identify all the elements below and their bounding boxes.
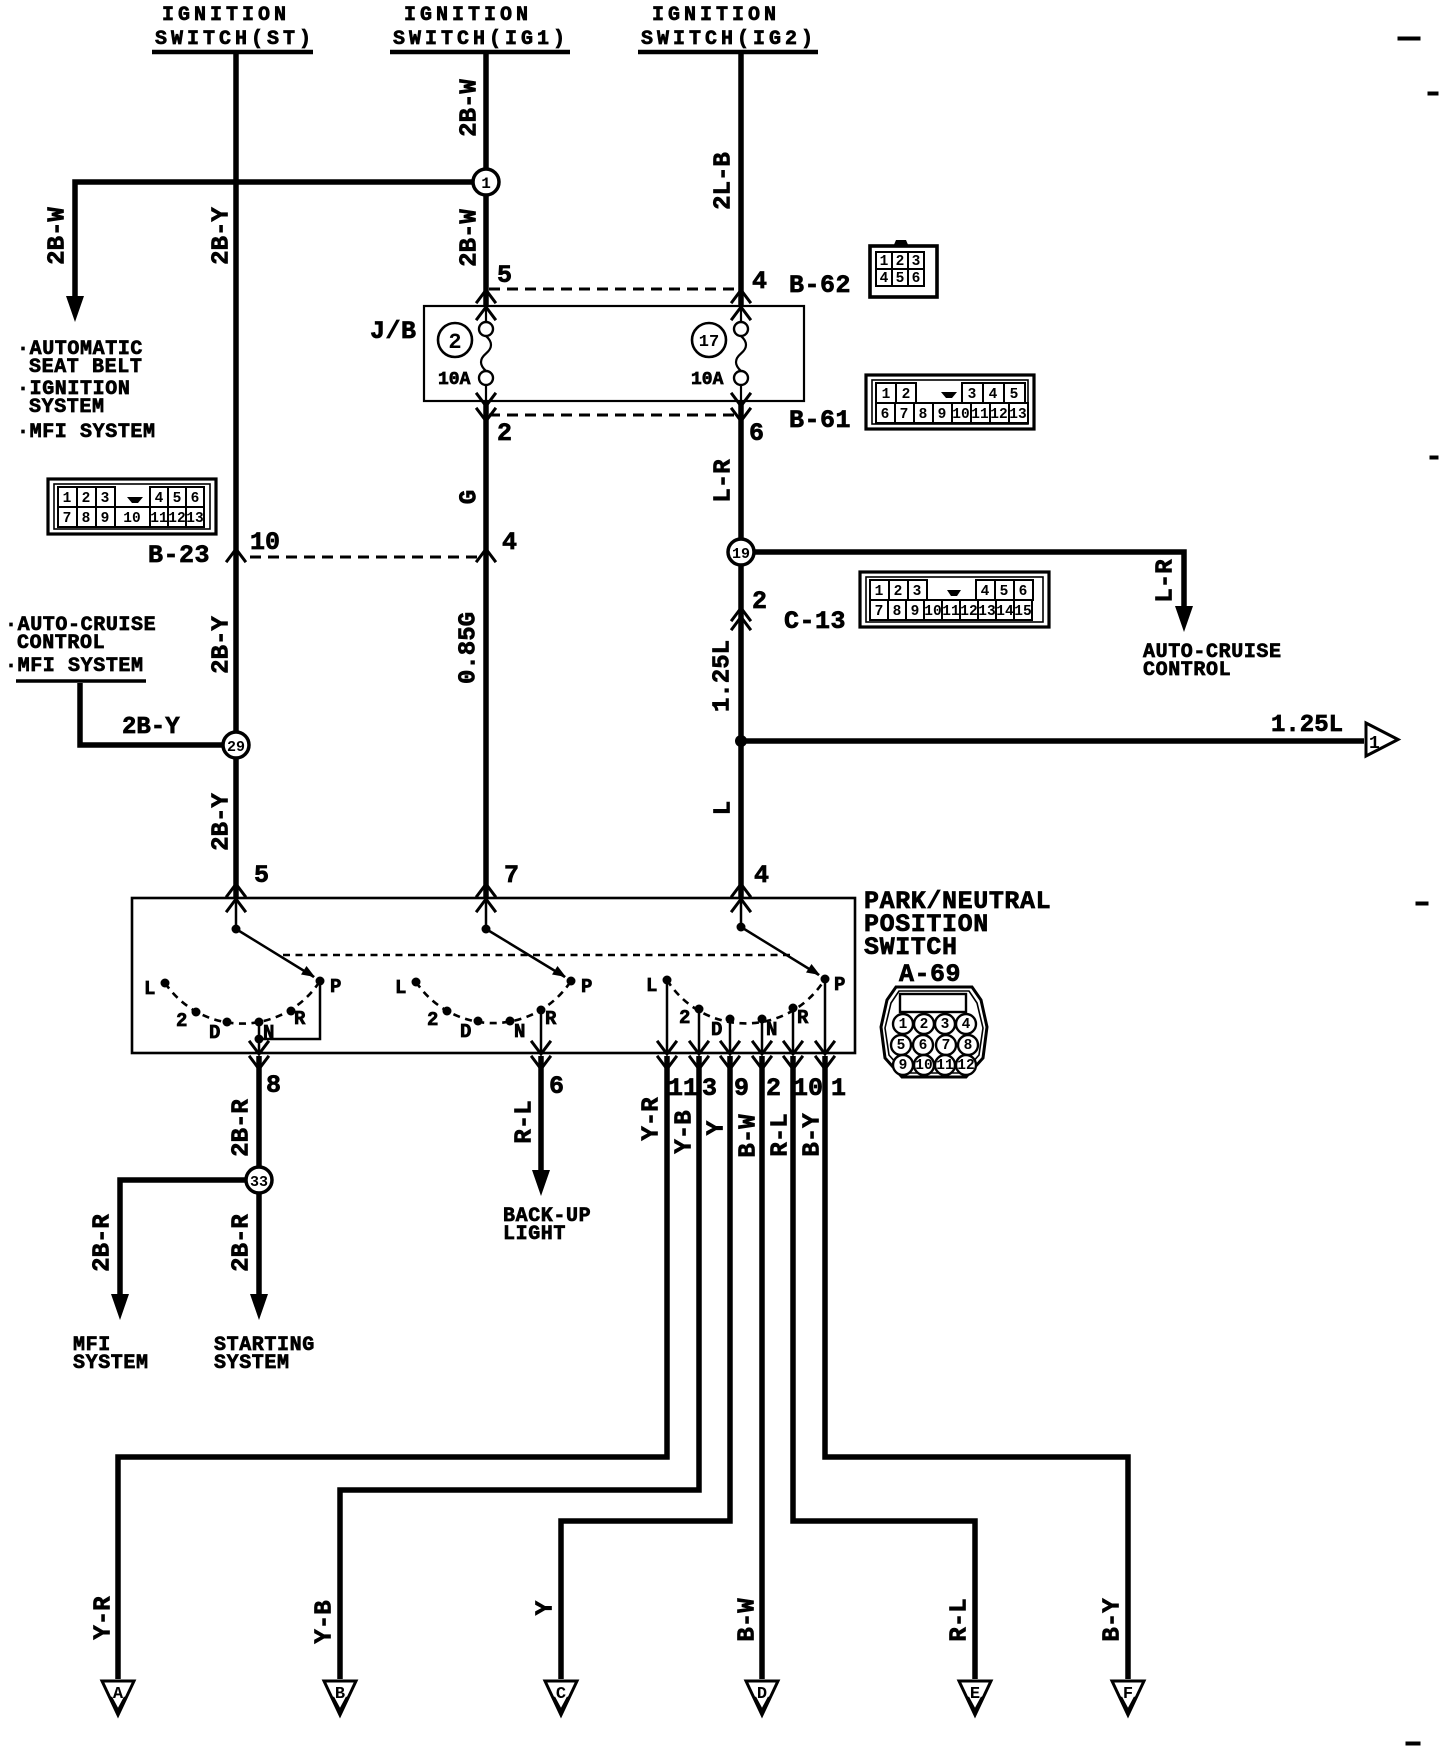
svg-text:2B-W: 2B-W [456, 79, 483, 137]
svg-text:6: 6 [912, 271, 921, 287]
dashed connector line B-23 pin10 to pin4 [250, 556, 482, 559]
svg-text:13: 13 [1009, 407, 1026, 423]
svg-text:9: 9 [938, 407, 947, 423]
svg-text:SEAT BELT: SEAT BELT [29, 356, 142, 379]
switch 3 IG2 pole [737, 898, 830, 984]
svg-text:Y: Y [703, 1120, 730, 1135]
wire Y pin9 to terminal C [561, 1056, 730, 1679]
svg-text:7: 7 [63, 511, 72, 527]
svg-text:2: 2 [497, 419, 512, 448]
wire pin6 output R-L to back-up light [538, 1056, 544, 1172]
svg-text:2: 2 [896, 254, 905, 270]
chevron IG2 at B-62 [732, 290, 750, 302]
node splice 33 [246, 1167, 272, 1193]
svg-text:13: 13 [186, 511, 203, 527]
terminal arrow B [324, 1681, 356, 1715]
label PARK/NEUTRAL POSITION SWITCH [864, 887, 1051, 962]
svg-text:10: 10 [123, 511, 140, 527]
chevron IG2 at B-61 [732, 409, 750, 421]
svg-text:4: 4 [981, 584, 990, 600]
svg-text:P: P [330, 976, 341, 998]
wire 1.25L branch right [741, 738, 1364, 744]
wire branch to auto-cruise control right [754, 552, 1184, 608]
chevron IG1 at J/B bottom [477, 394, 495, 406]
svg-text:10: 10 [924, 604, 941, 620]
svg-text:SYSTEM: SYSTEM [73, 1352, 149, 1375]
svg-text:2: 2 [902, 387, 911, 403]
svg-text:10: 10 [793, 1074, 823, 1103]
destination text BACK-UP LIGHT [503, 1205, 591, 1246]
svg-text:11: 11 [942, 604, 960, 620]
svg-text:7: 7 [942, 1038, 951, 1054]
svg-text:B-W: B-W [735, 1114, 762, 1158]
svg-text:11: 11 [150, 511, 168, 527]
svg-text:L-R: L-R [1152, 559, 1179, 603]
svg-text:2B-Y: 2B-Y [122, 714, 180, 741]
switch 2 IG1 pole [482, 898, 576, 986]
svg-text:IGNITION: IGNITION [162, 4, 290, 27]
svg-text:4: 4 [752, 267, 767, 296]
svg-text:Y-R: Y-R [638, 1097, 665, 1141]
svg-text:1: 1 [882, 387, 891, 403]
svg-text:SWITCH: SWITCH [864, 933, 958, 962]
svg-text:L-R: L-R [710, 459, 737, 503]
terminal arrow D [746, 1681, 778, 1715]
svg-text:LIGHT: LIGHT [503, 1223, 566, 1246]
svg-text:7: 7 [504, 861, 519, 890]
svg-text:R-L: R-L [511, 1100, 538, 1143]
scan speck top right [1398, 37, 1438, 1745]
svg-text:R: R [294, 1008, 306, 1030]
svg-text:CONTROL: CONTROL [1143, 659, 1231, 682]
svg-text:12: 12 [957, 1058, 974, 1074]
svg-text:19: 19 [732, 546, 750, 563]
svg-text:IGNITION: IGNITION [404, 4, 532, 27]
svg-text:2: 2 [82, 491, 91, 507]
svg-text:D: D [460, 1021, 471, 1043]
chevron IG1 at J/B top [477, 307, 495, 319]
svg-text:1: 1 [481, 175, 491, 193]
svg-text:6: 6 [881, 407, 890, 423]
svg-text:P: P [834, 974, 845, 996]
svg-text:2B-Y: 2B-Y [208, 616, 235, 674]
underline under MFI SYSTEM [16, 679, 146, 683]
svg-text:9: 9 [101, 511, 110, 527]
svg-text:3: 3 [101, 491, 110, 507]
svg-text:SYSTEM: SYSTEM [214, 1352, 290, 1375]
pin labels below PNP box [266, 1071, 846, 1103]
svg-text:CONTROL: CONTROL [17, 632, 105, 655]
svg-text:10: 10 [915, 1058, 932, 1074]
svg-text:9: 9 [899, 1058, 908, 1074]
svg-text:9: 9 [734, 1074, 749, 1103]
svg-text:2B-R: 2B-R [89, 1214, 116, 1272]
svg-text:2: 2 [920, 1017, 929, 1033]
svg-text:L: L [710, 801, 737, 815]
svg-text:L: L [395, 977, 406, 999]
svg-text:SWITCH(IG2): SWITCH(IG2) [641, 28, 817, 51]
svg-text:4: 4 [989, 387, 998, 403]
arrow to auto-cruise control [1175, 606, 1193, 632]
destination text AUTO-CRUISE CONTROL right [1143, 641, 1282, 682]
svg-text:9: 9 [911, 604, 920, 620]
arrow to automatic seat belt [66, 296, 84, 322]
svg-text:2B-R: 2B-R [228, 1214, 255, 1272]
connector C-13 graphic [860, 572, 1049, 627]
node splice 1 [473, 169, 499, 195]
svg-text:2: 2 [176, 1010, 187, 1032]
chevron double at C-13 [732, 608, 750, 620]
svg-text:2: 2 [679, 1007, 690, 1029]
destination text STARTING SYSTEM [214, 1334, 315, 1375]
svg-text:·MFI SYSTEM: ·MFI SYSTEM [5, 655, 144, 678]
svg-text:B-W: B-W [734, 1598, 761, 1642]
svg-text:3: 3 [912, 254, 921, 270]
wire pin8 output 2B-R to node 33 [256, 1056, 262, 1167]
svg-text:2B-Y: 2B-Y [208, 793, 235, 851]
svg-text:1: 1 [831, 1074, 846, 1103]
svg-text:2: 2 [894, 584, 903, 600]
switch 1 P-N link and output [255, 984, 321, 1053]
svg-text:1.25L: 1.25L [709, 640, 736, 712]
svg-text:4: 4 [155, 491, 164, 507]
svg-text:·MFI SYSTEM: ·MFI SYSTEM [17, 421, 156, 444]
node splice 19 [728, 539, 754, 565]
junction dot 1.25L branch [735, 735, 747, 747]
svg-text:4: 4 [880, 271, 889, 287]
svg-text:1: 1 [899, 1017, 908, 1033]
terminal arrow C [545, 1681, 577, 1715]
header IGNITION SWITCH(IG1) [390, 4, 570, 52]
svg-text:N: N [766, 1019, 777, 1041]
svg-text:12: 12 [960, 604, 977, 620]
svg-text:7: 7 [900, 407, 909, 423]
svg-text:12: 12 [168, 511, 185, 527]
switch 2 contact arc [395, 976, 592, 1043]
destination text AUTOMATIC SEAT BELT / IGNITION SYSTEM / MFI SYSTEM [17, 338, 156, 444]
gang dashed line [283, 954, 792, 957]
svg-text:13: 13 [978, 604, 995, 620]
svg-text:3: 3 [941, 1017, 950, 1033]
wire horizontal branch to automatic seat belt [75, 182, 473, 296]
svg-text:10A: 10A [691, 370, 724, 390]
terminal arrow F [1112, 1681, 1144, 1715]
svg-text:12: 12 [990, 407, 1007, 423]
svg-text:Y: Y [532, 1600, 559, 1615]
switch 1 contact arc [144, 976, 341, 1044]
svg-text:2B-Y: 2B-Y [208, 207, 235, 265]
chevrons PNP entries [227, 884, 245, 896]
wire ST chevron at B-23 line [227, 549, 245, 561]
destination text AUTO-CRUISE CONTROL / MFI SYSTEM left [5, 614, 156, 678]
chevrons PNP exits [250, 1042, 834, 1069]
svg-text:0.85G: 0.85G [455, 612, 482, 684]
arrow to starting system [250, 1294, 268, 1320]
wire from left destinations to node 29 [80, 683, 224, 745]
wire IG1 chevron at B-23 line [477, 549, 495, 561]
svg-text:3: 3 [913, 584, 922, 600]
svg-text:4: 4 [502, 528, 517, 557]
terminal arrow E [959, 1681, 991, 1715]
svg-text:8: 8 [893, 604, 902, 620]
connector A-69 graphic [881, 987, 987, 1077]
svg-text:L: L [144, 978, 155, 1000]
svg-text:G: G [456, 490, 483, 504]
junction block J/B box [424, 306, 804, 401]
wire IG1 2B-W node to J/B [483, 195, 489, 306]
svg-text:1.25L: 1.25L [1271, 712, 1343, 739]
svg-text:8: 8 [266, 1071, 281, 1100]
svg-text:3: 3 [702, 1074, 717, 1103]
svg-text:SYSTEM: SYSTEM [29, 396, 105, 419]
svg-text:6: 6 [549, 1072, 564, 1101]
header IGNITION SWITCH(IG2) [638, 4, 818, 52]
svg-text:D: D [711, 1019, 722, 1041]
svg-text:Y-B: Y-B [671, 1110, 698, 1153]
arrow to MFI system [111, 1294, 129, 1320]
svg-text:4: 4 [754, 861, 769, 890]
svg-text:11: 11 [971, 407, 989, 423]
svg-text:2: 2 [752, 587, 767, 616]
svg-text:1: 1 [875, 584, 884, 600]
svg-text:5: 5 [897, 1038, 906, 1054]
svg-text:A-69: A-69 [899, 960, 961, 989]
svg-text:1: 1 [63, 491, 72, 507]
wire IG2 column L-R vertical [738, 401, 744, 540]
chevron IG1 at B-61 [477, 409, 495, 421]
wire ST column 2B-Y vertical [233, 54, 239, 898]
svg-text:B-62: B-62 [789, 271, 851, 300]
svg-text:8: 8 [82, 511, 91, 527]
svg-text:R-L: R-L [946, 1598, 973, 1641]
svg-text:6: 6 [191, 491, 200, 507]
svg-text:3: 3 [968, 387, 977, 403]
svg-text:6: 6 [1019, 584, 1028, 600]
header IGNITION SWITCH(ST) [152, 4, 315, 52]
svg-text:10: 10 [250, 528, 280, 557]
wire IG2 column 2L-B vertical [738, 54, 744, 306]
destination text MFI SYSTEM [73, 1334, 149, 1375]
terminal arrow 1 right [1366, 723, 1398, 756]
wire branch left to MFI system [120, 1180, 246, 1296]
svg-text:L: L [646, 975, 657, 997]
fuse 17 10A [691, 306, 748, 401]
chevron IG2 at J/B bottom [732, 394, 750, 406]
wire Y-B pin3 to terminal B [340, 1056, 699, 1679]
svg-text:4: 4 [962, 1017, 971, 1033]
svg-text:SWITCH(ST): SWITCH(ST) [155, 28, 315, 51]
wire R-L pin10 to terminal E [793, 1056, 975, 1679]
switch 3 contact arc [646, 974, 845, 1041]
svg-text:IGNITION: IGNITION [652, 4, 780, 27]
svg-text:17: 17 [699, 333, 719, 352]
dashed connector line B-61 [489, 414, 738, 417]
svg-text:5: 5 [497, 261, 512, 290]
svg-text:6: 6 [919, 1038, 928, 1054]
svg-text:11: 11 [936, 1058, 954, 1074]
dashed connector line B-62 [489, 288, 738, 291]
fuse 2 10A [438, 306, 493, 401]
park/neutral position switch box [132, 898, 855, 1053]
svg-text:5: 5 [896, 271, 905, 287]
svg-text:2B-R: 2B-R [228, 1099, 255, 1157]
svg-text:2B-W: 2B-W [456, 209, 483, 267]
svg-text:33: 33 [250, 1174, 268, 1191]
svg-text:B-Y: B-Y [1099, 1598, 1126, 1642]
svg-text:2B-W: 2B-W [44, 207, 71, 265]
svg-text:2: 2 [448, 330, 461, 355]
chevron IG2 at J/B top [732, 307, 750, 319]
svg-text:15: 15 [1014, 604, 1031, 620]
svg-text:2: 2 [766, 1074, 781, 1103]
svg-text:C-13: C-13 [784, 607, 846, 636]
svg-text:J/B: J/B [370, 317, 417, 346]
switch 1 ST pole [232, 898, 325, 986]
svg-text:10A: 10A [438, 370, 471, 390]
svg-text:10: 10 [952, 407, 969, 423]
svg-text:7: 7 [875, 604, 884, 620]
wire B-W pin2 to terminal D [759, 1056, 765, 1679]
svg-text:5: 5 [254, 861, 269, 890]
svg-text:1: 1 [880, 254, 889, 270]
svg-text:5: 5 [173, 491, 182, 507]
svg-text:2: 2 [427, 1009, 438, 1031]
wire Y-R pin11 to terminal A [118, 1056, 667, 1679]
connector B-61 graphic [866, 375, 1034, 429]
svg-text:P: P [581, 976, 592, 998]
svg-text:5: 5 [1000, 584, 1009, 600]
terminal arrow A [102, 1681, 134, 1715]
svg-text:1: 1 [1369, 734, 1380, 754]
svg-text:B-61: B-61 [789, 406, 851, 435]
svg-text:N: N [514, 1021, 525, 1043]
svg-text:8: 8 [964, 1038, 973, 1054]
svg-text:D: D [209, 1022, 220, 1044]
wire node 33 down to starting system [256, 1193, 262, 1296]
svg-text:11: 11 [668, 1074, 698, 1103]
wire IG1 column G/0.85G vertical [483, 401, 489, 898]
svg-text:2L-B: 2L-B [710, 152, 737, 210]
wire IG2 node 19 to junction [738, 565, 744, 898]
svg-text:14: 14 [996, 604, 1014, 620]
switch 3 output wires inside box [667, 981, 825, 1053]
svg-text:5: 5 [1010, 387, 1019, 403]
wire B-Y pin1 to terminal F [825, 1056, 1128, 1679]
svg-text:SWITCH(IG1): SWITCH(IG1) [393, 28, 569, 51]
svg-text:Y-B: Y-B [311, 1600, 338, 1643]
svg-text:29: 29 [227, 739, 245, 756]
switch 2 output from R [540, 1012, 543, 1053]
svg-text:6: 6 [749, 419, 764, 448]
svg-text:B-23: B-23 [148, 541, 210, 570]
svg-text:R: R [545, 1008, 557, 1030]
node splice 29 [223, 732, 249, 758]
svg-text:8: 8 [919, 407, 928, 423]
connector B-23 graphic [48, 479, 216, 534]
arrow to back-up light [532, 1170, 550, 1196]
connector B-62 graphic [870, 240, 937, 297]
chevron IG1 at B-62 [477, 290, 495, 302]
svg-text:Y-R: Y-R [90, 1596, 117, 1640]
wire IG1 column 2B-W vertical top [483, 54, 489, 170]
svg-text:R: R [797, 1007, 809, 1029]
